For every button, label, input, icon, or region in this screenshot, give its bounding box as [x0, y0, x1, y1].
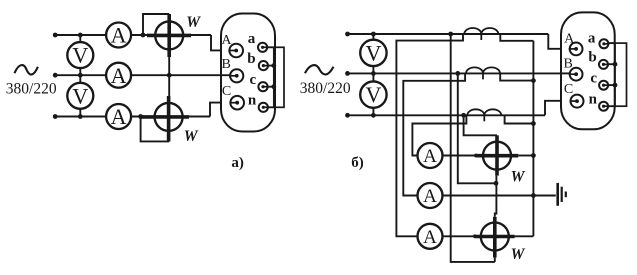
svg-text:b: b: [247, 51, 255, 67]
svg-text:380/220: 380/220: [300, 80, 351, 97]
svg-text:V: V: [72, 43, 88, 68]
svg-text:A: A: [423, 186, 437, 207]
svg-text:A: A: [564, 31, 575, 46]
svg-text:A: A: [423, 146, 437, 167]
svg-text:V: V: [72, 83, 88, 108]
svg-text:a: a: [588, 30, 596, 46]
svg-text:B: B: [221, 57, 230, 72]
svg-text:A: A: [221, 33, 232, 48]
svg-text:A: A: [111, 63, 127, 88]
svg-text:W: W: [511, 168, 526, 185]
svg-text:V: V: [365, 40, 381, 65]
svg-text:B: B: [563, 56, 572, 71]
svg-text:c: c: [250, 72, 257, 88]
svg-text:C: C: [222, 84, 231, 99]
svg-text:C: C: [564, 82, 573, 97]
svg-text:b: b: [588, 50, 596, 66]
svg-text:n: n: [248, 92, 257, 108]
svg-text:A: A: [423, 227, 437, 248]
svg-text:W: W: [511, 246, 526, 263]
svg-text:V: V: [365, 82, 381, 107]
svg-text:380/220: 380/220: [6, 81, 57, 98]
svg-text:a: a: [248, 31, 256, 47]
svg-text:W: W: [184, 128, 199, 145]
svg-text:n: n: [589, 92, 598, 108]
svg-text:c: c: [590, 71, 597, 87]
svg-text:A: A: [111, 104, 127, 129]
svg-text:W: W: [186, 14, 201, 31]
svg-text:A: A: [111, 23, 127, 48]
svg-text:a): a): [231, 155, 244, 171]
svg-text:б): б): [351, 155, 364, 171]
